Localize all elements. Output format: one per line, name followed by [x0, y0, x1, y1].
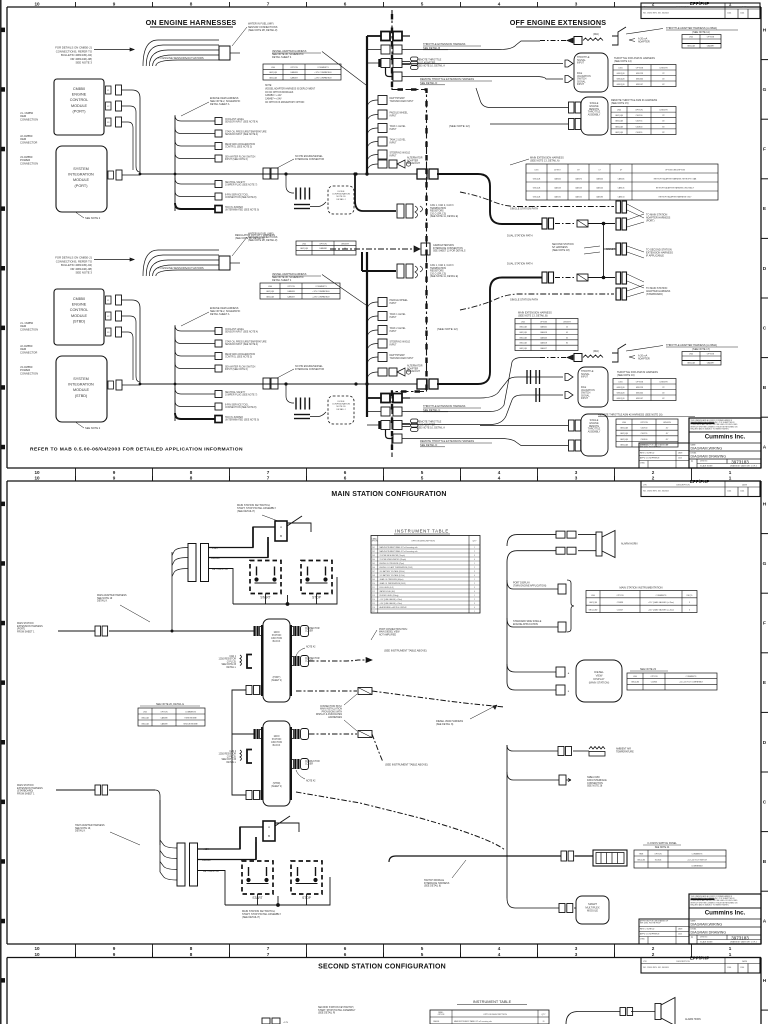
svg-text:MAIN INSTRUMENT PANEL KIT w/3: MAIN INSTRUMENT PANEL KIT w/3 mounting r…	[380, 550, 418, 553]
svg-text:SYSTEM: SYSTEM	[73, 167, 88, 171]
dash-dot block2 lower	[296, 792, 505, 850]
svg-text:DIAGRAM DRAWING: DIAGRAM DRAWING	[691, 930, 727, 934]
svg-text:DETAIL K: DETAIL K	[97, 600, 108, 603]
svg-text:7: 7	[267, 1, 270, 6]
svg-text:A: A	[280, 525, 282, 529]
svg-text:OPTION: OPTION	[635, 110, 643, 112]
svg-text:INPUT: INPUT	[390, 114, 398, 117]
svg-text:2: 2	[474, 567, 475, 569]
svg-text:OPTION DESCRIPTION: OPTION DESCRIPTION	[483, 1014, 507, 1016]
wire +12V (STBD)	[198, 827, 264, 849]
svg-text:OPTION: OPTION	[287, 286, 295, 288]
svg-text:C: C	[691, 459, 693, 463]
svg-text:2: 2	[652, 952, 655, 957]
svg-text:CONDUCTOR: CONDUCTOR	[305, 761, 320, 763]
svg-text:IF APPLICABLE: IF APPLICABLE	[646, 254, 664, 257]
remote throttle assembly (STBD)	[581, 414, 608, 456]
svg-text:H: H	[763, 501, 767, 507]
svg-text:INTERFACE CONNECTOR: INTERFACE CONNECTOR	[295, 368, 324, 371]
lower trunk page2	[506, 745, 508, 898]
svg-text:2: 2	[474, 583, 475, 585]
svg-text:9: 9	[113, 1, 116, 6]
svg-text:QTY: QTY	[542, 1014, 547, 1016]
svg-text:CAB145: CAB145	[618, 186, 625, 189]
svg-text:(SEE DETAIL P): (SEE DETAIL P)	[242, 916, 260, 919]
bank fan wires (PORT)	[171, 552, 173, 631]
svg-text:LNG: LNG	[617, 110, 621, 112]
svg-text:CONTROL: CONTROL	[70, 98, 88, 102]
svg-text:JUNCTION: JUNCTION	[271, 638, 283, 640]
svg-text:(SEE NOTE 40, DETAIL 8): (SEE NOTE 40, DETAIL 8)	[235, 237, 265, 240]
svg-text:C11: C11	[372, 587, 375, 589]
svg-text:SC0604: SC0604	[655, 859, 662, 861]
svg-text:3: 3	[575, 952, 578, 957]
centerline heavy dashes	[392, 14, 427, 457]
throttle adapter chain	[540, 357, 567, 359]
diode configuration box (PORT)	[328, 186, 354, 214]
svg-text:(STBD): (STBD)	[75, 394, 88, 398]
svg-text:COMMENTS: COMMENTS	[656, 595, 667, 597]
svg-text:CAB4H7: CAB4H7	[707, 45, 715, 48]
svg-text:GBC(L)B: GBC(L)B	[615, 115, 624, 117]
svg-text:A: A	[763, 445, 767, 451]
switch panel wire	[389, 856, 561, 862]
svg-text:ALARM HORN: ALARM HORN	[685, 1018, 701, 1021]
svg-text:DETAIL L: DETAIL L	[226, 761, 236, 764]
svg-text:GBC(L)B: GBC(L)B	[266, 297, 275, 299]
vessel adapter table (PORT)	[263, 64, 341, 80]
row ticks and letters right	[761, 533, 768, 535]
svg-text:COMMENTS: COMMENTS	[315, 286, 327, 288]
svg-text:MAIN: MAIN	[274, 631, 280, 634]
sheet border	[7, 6, 761, 8]
svg-text:LTR: LTR	[643, 485, 647, 487]
svg-text:C02: C02	[372, 551, 375, 553]
svg-text:3: 3	[689, 609, 690, 611]
svg-text:5: 5	[421, 946, 424, 951]
svg-text:C: C	[691, 935, 693, 939]
zone number strip	[75, 944, 77, 958]
svg-text:CM850: CM850	[73, 87, 85, 91]
svg-text:12V BATTERY VOLTAGE (17Vdc): 12V BATTERY VOLTAGE (17Vdc)	[380, 574, 406, 577]
block1 left stub bottom pair	[246, 686, 252, 695]
svg-text:LTR: LTR	[643, 7, 647, 9]
svg-text:H: H	[763, 978, 767, 984]
svg-text:BLOCK: BLOCK	[273, 745, 281, 747]
svg-text:(SEE NOTE 11): (SEE NOTE 11)	[692, 31, 710, 34]
svg-text:STAR OIL PRESSURE/TEMPERATURE: STAR OIL PRESSURE/TEMPERATURE	[225, 341, 267, 344]
svg-text:10: 10	[34, 1, 40, 6]
svg-text:INPUT: INPUT	[390, 141, 398, 144]
svg-text:C14: C14	[372, 599, 375, 601]
svg-text:CAB4B7: CAB4B7	[290, 77, 297, 80]
SIM connector (STBD)	[108, 381, 114, 389]
svg-text:OPTION: OPTION	[636, 381, 644, 383]
left scan edge	[0, 0, 2, 1024]
svg-text:D: D	[763, 266, 767, 272]
svg-text:(SEE DETAIL P): (SEE DETAIL P)	[237, 510, 255, 513]
svg-text:C13: C13	[372, 595, 375, 597]
wires with capacitors (STBD)	[402, 377, 563, 398]
svg-text:SEE NOTE 20, DETAIL E: SEE NOTE 20, DETAIL E	[156, 703, 184, 706]
svg-text:STAR OIL PRESSURE/TEMPERATURE: STAR OIL PRESSURE/TEMPERATURE	[225, 131, 267, 134]
sensor harness fan (PORT)	[143, 40, 219, 66]
svg-text:9: 9	[113, 475, 116, 480]
brace to instrumentation table	[567, 580, 574, 632]
svg-text:INTEGRATION: INTEGRATION	[68, 173, 94, 177]
svg-text:F: F	[763, 621, 766, 627]
svg-text:DESCRIPTION: DESCRIPTION	[676, 485, 690, 487]
switch loop wiring (STBD)	[225, 877, 330, 905]
wire ECM to trunk (PORT)	[122, 90, 141, 174]
svg-text:HARNESSES: HARNESSES	[328, 716, 342, 719]
title strip header	[641, 958, 760, 974]
svg-text:6: 6	[344, 475, 347, 480]
svg-text:4: 4	[498, 475, 501, 480]
signal ladder (STBD)	[175, 325, 215, 331]
svg-text:GBC(L)B: GBC(L)B	[533, 178, 541, 180]
svg-text:JUMPER PLUG (SEE NOTE 7): JUMPER PLUG (SEE NOTE 7)	[225, 395, 257, 397]
svg-text:M20597: M20597	[636, 84, 643, 86]
svg-text:SEE NOTE 3: SEE NOTE 3	[76, 271, 93, 275]
alarm horn speaker page2	[596, 532, 602, 556]
svg-text:(2 PLCS): (2 PLCS)	[227, 756, 237, 758]
svg-text:MAIN INSTALLATION: MAIN INSTALLATION	[320, 708, 342, 711]
title strip header	[641, 481, 760, 497]
svg-text:CONTROL: CONTROL	[70, 308, 88, 312]
svg-text:H: H	[763, 27, 767, 33]
keyswitch (STBD)	[263, 821, 275, 841]
throttle signal input box (STBD)	[578, 367, 608, 407]
block1 left stub top	[254, 626, 256, 636]
svg-text:GBC(L)B: GBC(L)B	[519, 332, 527, 334]
svg-text:NEUTRAL SAFETY: NEUTRAL SAFETY	[225, 391, 246, 394]
svg-text:GBC(L)B: GBC(L)B	[617, 73, 626, 75]
svg-text:+12/+24 VOLT SWITCH: +12/+24 VOLT SWITCH	[687, 859, 707, 861]
svg-text:DETAIL SHEET 4: DETAIL SHEET 4	[272, 56, 292, 59]
svg-text:DETAIL SHEET A: DETAIL SHEET A	[210, 313, 230, 316]
svg-text:C60855: C60855	[641, 444, 648, 446]
wire main extension (STBD)	[56, 789, 95, 791]
svg-text:OPTION DESCRIPTION: OPTION DESCRIPTION	[665, 169, 686, 171]
svg-text:SENSOR INPUT (SEE NOTE 4): SENSOR INPUT (SEE NOTE 4)	[225, 134, 258, 136]
svg-text:TO ENGINE SENSORS/ACTUATORS: TO ENGINE SENSORS/ACTUATORS	[158, 266, 204, 270]
svg-text:C17: C17	[372, 611, 375, 613]
svg-text:LENGTH: LENGTH	[660, 381, 668, 383]
svg-text:VIEW: VIEW	[596, 674, 603, 678]
wire CRANK (STBD)	[198, 842, 257, 860]
svg-text:DETAIL J: DETAIL J	[337, 408, 346, 411]
svg-text:BLOCK: BLOCK	[273, 641, 281, 643]
svg-text:OPTION: OPTION	[707, 37, 715, 39]
svg-text:LNG: LNG	[143, 711, 147, 713]
svg-text:3: 3	[689, 602, 690, 604]
svg-text:C03: C03	[372, 555, 375, 557]
nmea 0183 branch	[507, 772, 559, 780]
svg-text:RETROFIT ADAPTER HARNESS; RETR: RETROFIT ADAPTER HARNESS; RETROFIT/ GAB	[654, 177, 697, 180]
svg-text:GBC(L)B: GBC(L)B	[519, 337, 527, 339]
svg-text:8: 8	[190, 952, 193, 957]
connector row 2	[381, 45, 390, 54]
svg-text:MAIN: MAIN	[274, 735, 280, 738]
svg-text:FROM SHEET 1: FROM SHEET 1	[17, 630, 35, 633]
svg-text:CONNECTION (SEE NOTE 8): CONNECTION (SEE NOTE 8)	[225, 407, 257, 409]
row ticks and letters right	[761, 1009, 768, 1011]
svg-text:MODULE: MODULE	[71, 314, 88, 318]
svg-text:(SEE NOTE 17): (SEE NOTE 17)	[692, 348, 710, 351]
svg-text:M20440: M20440	[636, 392, 643, 394]
arrow to sensors (STBD)	[94, 259, 134, 261]
svg-text:(SEE NOTE 13, DETAIL B): (SEE NOTE 13, DETAIL B)	[518, 314, 548, 317]
svg-text:CONNECTOR: CONNECTOR	[20, 140, 37, 144]
heavy trunk (STBD)	[366, 252, 368, 417]
svg-text:ASSEMBLY: ASSEMBLY	[588, 431, 601, 434]
svg-text:TRANSDUCER INPUT: TRANSDUCER INPUT	[390, 100, 415, 103]
svg-text:CAB4B7 = +24V: CAB4B7 = +24V	[265, 98, 282, 101]
svg-text:MODULE: MODULE	[71, 104, 88, 108]
throttle adapter table	[682, 35, 721, 49]
row ticks and letters right	[761, 59, 768, 61]
main extension table (STBD)	[515, 319, 578, 351]
svg-text:(SEE NOTE 16): (SEE NOTE 16)	[617, 374, 635, 377]
svg-text:REMOTE THROTTLE EXTENSION HARN: REMOTE THROTTLE EXTENSION HARNESS	[420, 439, 474, 443]
svg-text:8-PIN SERVICE TOOL: 8-PIN SERVICE TOOL	[225, 405, 249, 407]
connector row 3 remote throttle	[381, 59, 390, 68]
svg-text:7: 7	[267, 952, 270, 957]
svg-text:ADAPTER: ADAPTER	[638, 40, 650, 43]
svg-text:(SEE INSTRUMENT TABLE ABOVE): (SEE INSTRUMENT TABLE ABOVE)	[385, 763, 428, 767]
svg-text:B: B	[268, 834, 270, 838]
svg-text:2003: 2003	[678, 458, 682, 460]
svg-text:DETAIL K: DETAIL K	[75, 830, 86, 833]
svg-text:ALARM HORN: ALARM HORN	[621, 543, 638, 546]
throttle signal input box (PORT)	[574, 53, 608, 92]
svg-text:ON ENGINE HARNESSES: ON ENGINE HARNESSES	[146, 18, 237, 27]
svg-text:GBC(L)B: GBC(L)B	[266, 291, 275, 293]
svg-text:D?: D?	[620, 169, 622, 171]
sheet border	[7, 957, 761, 959]
svg-text:(SEE NOTE 13, DETAIL A): (SEE NOTE 13, DETAIL A)	[530, 159, 560, 162]
switch loop wiring (PORT)	[233, 577, 337, 604]
svg-text:GBC(L)B: GBC(L)B	[615, 132, 624, 134]
svg-text:SYSTEM SPEEDOMETER (35mph): SYSTEM SPEEDOMETER (35mph)	[380, 559, 407, 561]
svg-text:1: 1	[474, 611, 475, 613]
svg-text:120Ω RESISTOR: 120Ω RESISTOR	[218, 754, 236, 756]
svg-text:(SEE NOTE 12): (SEE NOTE 12)	[449, 124, 470, 128]
svg-text:CONNECTION: CONNECTION	[20, 371, 38, 375]
svg-text:SCALE NONE: SCALE NONE	[700, 941, 713, 944]
svg-text:INSTRUMENT TABLE: INSTRUMENT TABLE	[395, 529, 449, 534]
svg-text:BREAKOUT: BREAKOUT	[407, 370, 421, 373]
heavy trunk (PORT)	[366, 36, 368, 174]
svg-text:COOLANT LEVEL: COOLANT LEVEL	[225, 328, 245, 331]
svg-text:COMMENTS: COMMENTS	[686, 676, 697, 678]
zone number strip	[75, 468, 77, 481]
WIF sensor connector (STBD)	[219, 256, 230, 270]
svg-text:INPUT: INPUT	[390, 330, 398, 333]
svg-text:DIAGRAM,WIRING: DIAGRAM,WIRING	[691, 922, 723, 926]
svg-text:INPUT: INPUT	[390, 316, 398, 319]
svg-text:TWIN ENGINE: TWIN ENGINE	[184, 717, 197, 719]
svg-text:8-PIN SERVICE TOOL: 8-PIN SERVICE TOOL	[225, 195, 249, 197]
svg-text:INSTRUMENT TABLE: INSTRUMENT TABLE	[473, 999, 512, 1004]
input ladder (PORT)	[367, 100, 378, 106]
svg-text:GBC(L)B: GBC(L)B	[615, 121, 624, 123]
ECM module CM850 (STBD)	[54, 289, 104, 345]
svg-text:+24V COMPATIBLE: +24V COMPATIBLE	[314, 77, 332, 80]
smart multiplex module	[576, 896, 609, 924]
svg-text:(PORT): (PORT)	[646, 219, 655, 222]
svg-text:CAB4B3: CAB4B3	[290, 71, 297, 74]
svg-text:INTEGRATION: INTEGRATION	[68, 383, 94, 387]
svg-text:+24V QUAD GAUGES (+/-2bar): +24V QUAD GAUGES (+/-2bar)	[648, 608, 674, 611]
svg-text:GBC(L)B: GBC(L)B	[519, 327, 527, 329]
svg-text:CAB045: CAB045	[618, 177, 625, 180]
svg-text:1: 1	[474, 563, 475, 565]
svg-text:A? EXT: A? EXT	[554, 168, 561, 171]
svg-text:OPTION: OPTION	[160, 711, 168, 713]
CAN termination (PORT)	[355, 174, 396, 211]
svg-text:4: 4	[498, 952, 501, 957]
svg-text:DIAGRAM,WIRING: DIAGRAM,WIRING	[691, 446, 723, 450]
title block rows	[689, 918, 761, 920]
left edge scan line	[2, 28, 6, 32]
svg-text:(PORT): (PORT)	[75, 184, 89, 188]
svg-text:(STBD): (STBD)	[273, 783, 281, 785]
junction block 2	[263, 721, 290, 806]
title block proprietary note	[689, 894, 761, 944]
svg-text:OPTION: OPTION	[654, 853, 662, 855]
svg-text:(SHEET 2): (SHEET 2)	[271, 786, 282, 788]
SIM module (STBD)	[56, 356, 107, 422]
svg-text:EPP/PHP: EPP/PHP	[690, 479, 709, 484]
svg-text:LENGTH: LENGTH	[660, 67, 668, 69]
svg-text:E: E	[763, 680, 766, 686]
svg-text:D: D	[763, 740, 767, 746]
svg-text:1: 1	[729, 475, 732, 480]
svg-text:COVER: COVER	[305, 631, 313, 633]
svg-text:GBC(L)B: GBC(L)B	[617, 387, 626, 389]
B UG adapter symbol	[402, 423, 410, 425]
ambient air temperature branch	[507, 745, 558, 751]
svg-text:B: B	[763, 385, 767, 391]
diode configuration box (STBD)	[328, 396, 354, 424]
svg-text:INPUT: INPUT	[390, 343, 398, 346]
svg-text:(SEE NOTE 11, DETAIL E): (SEE NOTE 11, DETAIL E)	[430, 215, 458, 218]
wire row2 to adapter (PORT)	[402, 41, 540, 50]
title block proprietary note	[689, 418, 761, 468]
svg-text:DISPLAY: DISPLAY	[593, 677, 604, 681]
svg-text:CONNECTION: CONNECTION	[20, 327, 38, 331]
svg-text:GBC(L)B: GBC(L)B	[269, 78, 278, 80]
svg-text:DWG NO.: DWG NO.	[700, 937, 708, 939]
svg-text:JUMPER PLUG (SEE NOTE 7): JUMPER PLUG (SEE NOTE 7)	[225, 185, 257, 187]
svg-text:CAB131: CAB131	[554, 195, 561, 198]
ECM module CM850 (PORT)	[54, 79, 104, 135]
start switch (PORT)	[250, 561, 281, 594]
svg-text:STATION: STATION	[272, 634, 282, 637]
svg-text:EPP/PHP: EPP/PHP	[690, 1, 709, 6]
wire SIM to bus (PORT)	[122, 174, 140, 176]
svg-text:SEE NOTE 2: SEE NOTE 2	[85, 426, 101, 430]
svg-text:LNG: LNG	[302, 243, 306, 245]
svg-text:(MΩ): (MΩ)	[593, 350, 599, 353]
svg-text:GBC(L)B: GBC(L)B	[687, 46, 696, 48]
svg-text:GBC(L)M2: GBC(L)M2	[589, 609, 598, 611]
svg-text:LNG: LNG	[521, 321, 525, 323]
svg-text:SEE DETAIL D: SEE DETAIL D	[420, 81, 437, 85]
svg-text:1: 1	[474, 579, 475, 581]
svg-text:OPTION: OPTION	[707, 354, 715, 356]
svg-text:ON CD OPTION MODULES: ON CD OPTION MODULES	[265, 92, 294, 94]
svg-text:7: 7	[267, 475, 270, 480]
svg-text:M20597: M20597	[636, 398, 643, 400]
svg-text:REF. DWG. P/N THE PROP: REF. DWG. P/N THE PROP	[640, 923, 662, 925]
svg-text:NEUTRAL SAFETY: NEUTRAL SAFETY	[225, 181, 246, 184]
alarm horn wire page2	[507, 535, 556, 546]
svg-text:(MAIN STATION): (MAIN STATION)	[589, 681, 610, 685]
svg-text:CAB043: CAB043	[540, 336, 547, 339]
svg-text:(SEE DETAIL N): (SEE DETAIL N)	[436, 723, 454, 726]
svg-text:OPTION: OPTION	[650, 676, 658, 678]
svg-text:CONNECTION: CONNECTION	[20, 161, 38, 165]
input ladder (STBD)	[367, 302, 378, 308]
svg-text:5: 5	[421, 1, 424, 6]
svg-text:9: 9	[113, 952, 116, 957]
svg-text:G: G	[763, 87, 767, 93]
block1 right stubs	[297, 626, 299, 636]
svg-text:C01: C01	[372, 547, 375, 549]
svg-text:9: 9	[113, 946, 116, 951]
svg-text:CONTROL (SEE NOTE 5): CONTROL (SEE NOTE 5)	[225, 357, 252, 359]
svg-text:INPUT: INPUT	[390, 302, 398, 305]
svg-text:85: 85	[566, 343, 568, 345]
svg-text:GBC(L)B: GBC(L)B	[615, 126, 624, 128]
svg-text:C08: C08	[372, 575, 375, 577]
svg-text:CAB143: CAB143	[554, 186, 561, 189]
ladder trunk (PORT)	[174, 116, 176, 211]
svg-text:OFF ENGINE EXTENSIONS: OFF ENGINE EXTENSIONS	[510, 18, 606, 27]
title block left table	[639, 919, 689, 944]
svg-text:OPTION: OPTION	[438, 1014, 445, 1016]
svg-text:CAB4B3 = +12V: CAB4B3 = +12V	[265, 94, 282, 97]
svg-text:CONNECTOR: CONNECTOR	[305, 628, 320, 630]
svg-text:H2O IN JUMPER: H2O IN JUMPER	[225, 417, 243, 419]
svg-text:COMMENTS: COMMENTS	[692, 853, 703, 855]
svg-text:C20946: C20946	[651, 682, 657, 684]
svg-text:2003: 2003	[678, 934, 682, 936]
svg-text:COOLANT LEVEL: COOLANT LEVEL	[225, 118, 245, 121]
svg-text:SECOND STATION CONFIGURATION: SECOND STATION CONFIGURATION	[318, 964, 446, 971]
svg-text:B: B	[763, 859, 767, 865]
svg-text:GBC(L)B: GBC(L)B	[620, 433, 629, 435]
svg-text:LNG: LNG	[619, 381, 623, 383]
svg-text:LNG: LNG	[689, 37, 693, 39]
svg-text:SEE NOTE 10, DETAIL A: SEE NOTE 10, DETAIL A	[417, 426, 445, 429]
svg-text:LNG: LNG	[268, 286, 272, 288]
svg-text:DUAL STATION PATH: DUAL STATION PATH	[507, 262, 533, 266]
wire SIM to bus (STBD)	[122, 384, 140, 386]
svg-text:REAR AND ACCELERATION: REAR AND ACCELERATION	[225, 143, 255, 146]
svg-text:M20440: M20440	[636, 78, 643, 80]
svg-text:DETAIL SHEET 4: DETAIL SHEET 4	[272, 279, 292, 282]
svg-text:SEE NOTE 2: SEE NOTE 2	[85, 216, 101, 220]
svg-text:1: 1	[474, 547, 475, 549]
svg-text:3: 3	[474, 571, 475, 573]
svg-text:6: 6	[344, 946, 347, 951]
svg-text:OPTION: OPTION	[319, 243, 327, 245]
svg-text:CAN 1: CAN 1	[229, 655, 236, 658]
